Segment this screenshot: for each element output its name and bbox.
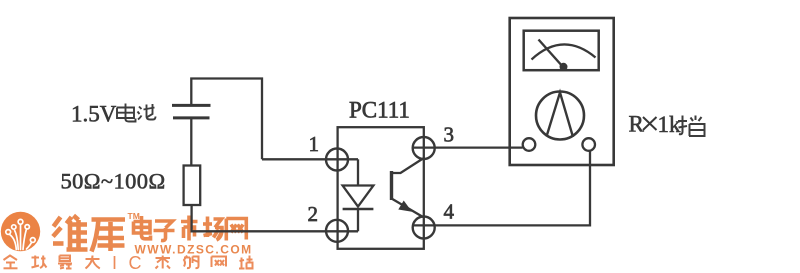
meter needle — [539, 40, 564, 68]
pin 2 terminal circle — [326, 220, 348, 242]
wire: battery negative to resistor — [190, 119, 192, 166]
range selector knob — [536, 92, 584, 140]
optocoupler U1 PC111 package outline — [338, 127, 424, 249]
wire: node A to pin 1 and LED anode — [262, 158, 358, 160]
pin 3 terminal circle — [413, 137, 435, 159]
watermark wordmark WEIKU (维库) — [53, 216, 125, 252]
LED D1 cathode bar — [343, 208, 374, 211]
svg-text:50Ω~100Ω: 50Ω~100Ω — [61, 169, 166, 194]
LED D1 triangle — [343, 186, 374, 207]
phototransistor Q1 emitter arrow — [398, 201, 412, 212]
knob pointer mark — [547, 93, 574, 138]
svg-text:PC111: PC111 — [349, 98, 410, 123]
label: 电池 (battery) characters — [117, 104, 156, 122]
LED D1 anode lead — [357, 159, 359, 185]
multimeter display window — [524, 31, 599, 70]
pin 4 terminal circle — [413, 217, 435, 239]
svg-text:TM: TM — [128, 211, 140, 221]
watermark logo circle — [1, 212, 40, 251]
svg-text:R: R — [629, 112, 645, 137]
meter scale arc — [532, 44, 596, 59]
battery B1 1.5V top plate — [172, 104, 211, 107]
svg-text:3: 3 — [444, 123, 455, 147]
phototransistor Q1 base bar — [390, 171, 393, 200]
multimeter right terminal — [582, 138, 595, 151]
multimeter left terminal — [523, 138, 536, 151]
battery B1 bottom plate — [173, 116, 210, 119]
wire: pin 4 to multimeter right terminal — [413, 151, 590, 225]
label: 挡 (range) character — [678, 116, 705, 137]
svg-text:4: 4 — [444, 200, 455, 224]
phototransistor Q1 collector lead — [392, 159, 424, 174]
svg-text:1k: 1k — [658, 112, 682, 137]
watermark slogan row (全球最大IC采购网站) — [4, 256, 100, 269]
svg-text:IC: IC — [112, 253, 153, 273]
multiplication sign of range label — [643, 117, 657, 130]
meter needle pivot — [560, 63, 568, 71]
svg-text:2: 2 — [308, 202, 319, 226]
wire: resistor bottom to pin 2 of optocoupler — [192, 205, 358, 231]
phototransistor Q1 emitter lead — [392, 199, 424, 218]
wire: battery positive loop to node A (top) — [191, 79, 262, 160]
wire: pin 3 to multimeter left terminal — [413, 146, 523, 148]
multimeter body — [510, 18, 614, 165]
LED D1 cathode lead — [357, 209, 359, 231]
pin 1 terminal circle — [326, 149, 348, 171]
resistor R1 50Ω~100Ω body — [184, 166, 201, 206]
svg-text:1: 1 — [309, 132, 320, 156]
watermark characters 电子市场网 — [134, 216, 247, 241]
svg-text:1.5V: 1.5V — [71, 102, 117, 127]
